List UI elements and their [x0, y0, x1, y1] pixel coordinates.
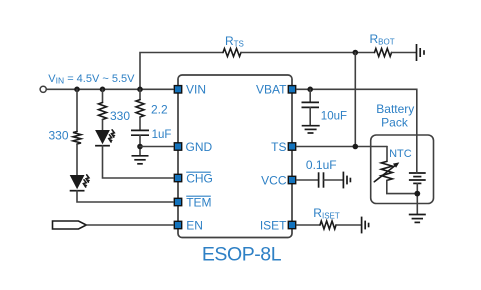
- node junction branch3: [137, 87, 143, 93]
- wire branch1 down: [76, 89, 78, 131]
- node junction top rail / TS branch: [353, 50, 359, 56]
- svg-text:10uF: 10uF: [321, 110, 347, 122]
- resistor 2.2: [136, 100, 144, 117]
- node battery bottom junction: [414, 191, 420, 197]
- pin EN: [174, 221, 181, 228]
- wire branch3 down: [139, 89, 141, 99]
- wire VBAT to battery pack: [297, 89, 417, 172]
- wire TS vertical from top rail: [354, 53, 356, 147]
- wire TS rail: [297, 146, 388, 148]
- wire resistor to capacitor C1: [139, 117, 141, 130]
- ground at C2: [302, 126, 320, 133]
- thermistor NTC: [386, 147, 388, 162]
- ground sideways at RBOT: [417, 44, 425, 61]
- svg-text:VIN: VIN: [186, 83, 206, 97]
- resistor RTS: [223, 49, 241, 57]
- wire branch2 down: [102, 89, 104, 102]
- resistor RBOT: [375, 49, 392, 57]
- battery cell symbol: [409, 173, 426, 183]
- svg-text:VBAT: VBAT: [256, 83, 287, 97]
- svg-text:VIN = 4.5V ~ 5.5V: VIN = 4.5V ~ 5.5V: [48, 73, 135, 86]
- wire main input rail: [46, 88, 173, 90]
- resistor 330 (branch1): [73, 132, 81, 145]
- pin TEM: [174, 198, 181, 205]
- pin ISET: [288, 221, 295, 228]
- svg-text:ISET: ISET: [260, 218, 287, 232]
- wire RTS to RBOT junction: [241, 52, 375, 54]
- node VBAT junction: [307, 87, 313, 93]
- wire top rail from VIN branch to RTS: [140, 53, 223, 90]
- capacitor C2 10uF: [309, 89, 311, 102]
- pin VBAT: [288, 86, 295, 93]
- svg-text:330: 330: [110, 109, 130, 123]
- svg-text:2.2: 2.2: [151, 102, 168, 116]
- svg-text:TS: TS: [271, 140, 286, 154]
- ground at C1: [132, 156, 149, 164]
- node junction branch1: [74, 87, 80, 93]
- wire capacitor to GND node: [139, 135, 141, 155]
- svg-text:ESOP-8L: ESOP-8L: [202, 243, 282, 265]
- svg-text:1uF: 1uF: [152, 129, 172, 141]
- resistor 330 (branch2): [99, 103, 107, 120]
- LED D2: [95, 130, 115, 146]
- node TS junction: [353, 144, 359, 150]
- pin GND: [174, 143, 181, 150]
- resistor RISET: [320, 221, 336, 229]
- input terminal circle: [40, 86, 46, 92]
- node GND junction: [137, 144, 143, 150]
- svg-text:GND: GND: [186, 140, 213, 154]
- pin TS: [288, 143, 295, 150]
- LED D1: [70, 175, 90, 191]
- svg-text:Battery: Battery: [376, 102, 414, 116]
- battery pack enclosure box: [371, 135, 434, 204]
- wire RBOT to ground: [392, 52, 416, 54]
- svg-text:VCC: VCC: [261, 173, 287, 187]
- op-amp U1 ESOP-8L body: [178, 75, 292, 238]
- wire LED1 to TEM pin: [77, 191, 173, 202]
- ground sideways at C3: [343, 172, 350, 189]
- svg-text:NTC: NTC: [389, 148, 412, 160]
- svg-text:0.1uF: 0.1uF: [306, 158, 337, 172]
- ground sideways at RISET: [362, 217, 369, 234]
- capacitor C3 0.1uF: [319, 172, 324, 187]
- node junction branch2: [100, 87, 106, 93]
- svg-text:330: 330: [49, 129, 69, 143]
- wire resistor to LED1: [76, 144, 78, 175]
- pin CHG: [174, 174, 181, 181]
- ground below battery pack: [409, 215, 426, 223]
- pin VIN: [174, 86, 181, 93]
- svg-text:CHG: CHG: [186, 171, 213, 185]
- svg-text:TEM: TEM: [186, 195, 211, 209]
- wire RISET to ground: [336, 224, 361, 226]
- svg-text:EN: EN: [186, 218, 203, 232]
- wire ISET to RISET: [297, 224, 321, 226]
- wire resistor to LED2: [102, 120, 104, 131]
- pin VCC: [288, 176, 295, 183]
- wire LED2 to CHG pin: [103, 146, 174, 178]
- wire C3 to ground: [324, 179, 343, 181]
- wire GND node to GND pin: [140, 146, 173, 148]
- wire thermistor to battery bottom node: [387, 180, 418, 193]
- capacitor C1 1uF: [131, 130, 149, 135]
- wire EN arrow to EN pin: [86, 224, 173, 226]
- EN input arrow symbol: [53, 221, 87, 229]
- wire VCC to C3: [297, 179, 319, 181]
- svg-text:Pack: Pack: [381, 115, 409, 129]
